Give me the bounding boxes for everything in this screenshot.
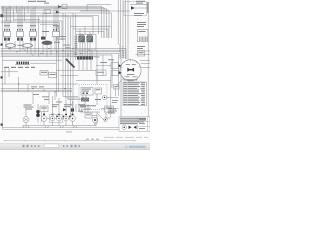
feed box label [108, 58, 114, 61]
connector box A [62, 4, 67, 8]
dark connector bar J1 [77, 56, 93, 59]
wire drops into controller [80, 27, 108, 39]
battery label text [24, 105, 34, 110]
ground hatch 4 [73, 126, 77, 128]
relay box right [105, 106, 114, 112]
wire bus top 1 [1, 6, 102, 38]
solenoid dark blobs [36, 110, 40, 117]
toolbar page input [45, 144, 59, 147]
note text [44, 3, 49, 4]
ground hatch 3 [60, 126, 64, 128]
wire mid bus 2 [1, 23, 60, 40]
wire bundle corner horizontals to right [71, 27, 111, 32]
wire circle to lower-left [116, 78, 124, 96]
legend table [123, 82, 147, 105]
faint download watermark [104, 136, 148, 139]
key switch label [127, 73, 135, 76]
text bar inside dashed box [80, 105, 96, 106]
key switch contacts [127, 68, 134, 72]
connector box B [44, 10, 51, 14]
wire vertical drops top-left grid [5, 6, 58, 41]
wire mid horizontals [56, 70, 78, 75]
relay K1 [4, 25, 11, 41]
hatched component B [87, 35, 93, 42]
hatched component A [79, 35, 85, 42]
gauge circle G1 [41, 116, 47, 122]
module box inside [81, 88, 93, 96]
watermark logo [125, 146, 146, 148]
pin header box [138, 30, 149, 42]
top-right info box outline [124, 2, 147, 16]
toolbar nav icons right [63, 145, 80, 147]
drawing frame left border [2, 7, 4, 130]
wire left band 1 [1, 83, 78, 85]
wire main bus band 1 [1, 49, 126, 59]
wire bottom ground bus [22, 125, 97, 127]
mid text specks [54, 36, 70, 48]
wire drops from relays to bus [6, 41, 59, 57]
wire left band 2 [1, 89, 72, 92]
wire under bus [3, 59, 63, 61]
legend symbol circle [122, 125, 127, 130]
text under small box [112, 100, 118, 103]
gauge top dark bits [56, 116, 70, 118]
key switch rim ticks [121, 60, 141, 84]
wire bus top 2 [1, 8, 104, 39]
dark mark top-left [0, 14, 3, 17]
wire to key switch [96, 65, 111, 67]
wire main bus band 3 [1, 52, 121, 117]
label between ovals [18, 45, 24, 46]
wire below connector bar [76, 60, 96, 71]
wire main bus band 6 [1, 56, 96, 58]
wire vertical pair right [111, 60, 113, 76]
wire from sensor right [107, 97, 119, 99]
drawing frame right border [147, 2, 149, 129]
terminal strip TB1 [15, 62, 30, 65]
note text left of legend [108, 109, 117, 114]
gauge circle G2 [50, 116, 55, 121]
legend arrows [129, 126, 137, 130]
row marker 1 [1, 44, 3, 46]
wire solenoid drop [37, 104, 39, 123]
junction dots mid-left [18, 83, 66, 92]
key switch feed arrow [119, 64, 122, 67]
page edge rule [4, 140, 137, 142]
component box M1 [40, 71, 48, 76]
legend table header [124, 79, 138, 80]
text right of connector bar [95, 57, 108, 63]
wire bus top 7 [1, 17, 93, 34]
dashed drops above key switch [120, 44, 126, 59]
wire relay links [101, 109, 119, 119]
right border dark top segment [147, 2, 149, 13]
gauge group outline [49, 115, 63, 123]
scan speckle texture [2, 3, 149, 128]
gauge pin marks [43, 114, 74, 116]
wire right vertical [110, 76, 112, 117]
pin text column [74, 37, 77, 58]
row marker 3 [1, 124, 3, 126]
wire into dashed box [96, 76, 98, 85]
module box 2 inside [95, 88, 102, 94]
wire meter links [80, 112, 100, 126]
title text 2 [37, 1, 46, 2]
wire gauge row links [41, 112, 70, 122]
legend text rows [120, 118, 146, 124]
dashed harness box [79, 85, 107, 110]
key switch feed arrow 2 [119, 71, 122, 74]
wire top-right branch box [80, 5, 130, 11]
top-right text rows [134, 13, 146, 27]
wire bus top 6 [1, 16, 99, 35]
sensor circle S1 [102, 95, 106, 99]
wires exiting key switch right [136, 51, 151, 67]
gauge circle G4 [64, 116, 69, 121]
junction box below controller [96, 70, 106, 76]
fuse labels row [4, 67, 35, 68]
connector oval P2 [23, 44, 33, 48]
dark diagonal harness wedge [66, 59, 75, 68]
wire bus top 4 [1, 10, 109, 38]
legend box [119, 117, 150, 131]
top-right note text [136, 1, 145, 4]
wire mid bus 1 [1, 21, 62, 40]
battery circle B1 [23, 117, 29, 123]
wire bus top 3 [1, 9, 107, 38]
wire left verticals [19, 77, 29, 92]
gauge circle G3 [57, 116, 62, 121]
small symbol right [104, 118, 108, 122]
diode arrow [63, 108, 67, 111]
wire right of controller [97, 50, 103, 80]
wire main bus band 4 [1, 53, 119, 96]
right small box [138, 51, 145, 57]
page background [0, 0, 150, 143]
wire middle vertical pair [57, 26, 59, 97]
small box left of table [114, 85, 120, 90]
component box M2 [49, 73, 57, 78]
ground hatch 1 [23, 126, 29, 128]
wire engine verticals [76, 104, 88, 113]
wire gauge drops [26, 121, 73, 126]
key switch feed box 2 [111, 70, 119, 75]
wire diagonal [98, 114, 106, 122]
wire battery drop [25, 110, 27, 117]
top-right rule [130, 3, 148, 5]
right mid text [137, 46, 145, 49]
wire bus top 5 [1, 13, 112, 38]
connector arrow A [58, 5, 62, 8]
key switch feed box [111, 63, 119, 69]
toolbar band [0, 143, 150, 150]
relay K5 [53, 25, 60, 41]
wire short horizontals upper-left [14, 19, 40, 21]
right bundle tops [118, 0, 128, 60]
wire main bus band 5 [1, 55, 112, 88]
wire main bus band 2 [1, 50, 124, 58]
wire nested corner [40, 24, 57, 40]
dark module blob [71, 108, 74, 111]
wire drops inside dashed box [83, 94, 97, 105]
wire gauge feed verticals [33, 92, 73, 114]
ground hatch 2 [45, 126, 49, 128]
label under bar [95, 99, 101, 100]
left mid text specks [31, 86, 62, 102]
row marker 2 [1, 76, 3, 78]
title text top-left [28, 1, 36, 2]
key switch inner labels [126, 64, 137, 77]
meter box [85, 113, 92, 118]
relay K4 dark module [41, 28, 52, 45]
connector arrow B [56, 11, 60, 14]
drawing frame bottom double border [3, 128, 149, 130]
key switch circle [120, 60, 141, 81]
gauge circle G5 [70, 116, 76, 122]
relay K2 [17, 25, 24, 41]
wire lower-left extras [1, 63, 56, 84]
fuse block label text [52, 104, 91, 111]
fuse holder box [40, 106, 48, 112]
wire from arrow [135, 7, 148, 9]
wire legs from controller [80, 42, 92, 56]
wire above dashed box [76, 80, 111, 82]
hatched bar inside [81, 98, 89, 102]
connector oval P1 [6, 44, 16, 48]
top-right arrow symbol [131, 6, 135, 10]
junction dots [8, 48, 89, 56]
fine grid verticals top-left [4, 6, 29, 22]
page number mark [66, 131, 72, 134]
controller box outline [77, 34, 97, 50]
toolbar nav icons left [23, 145, 40, 147]
relay K3 [30, 25, 37, 41]
legend mini table [138, 117, 150, 131]
meter circle with dot [92, 117, 97, 122]
gauge center dots [43, 118, 73, 119]
ruler small digits [86, 139, 99, 140]
wire middle vertical bundle [63, 13, 82, 118]
